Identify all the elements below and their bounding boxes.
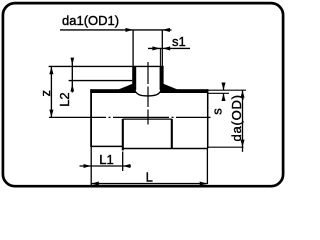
svg-text:L1: L1 xyxy=(99,152,113,167)
dim s line top xyxy=(223,83,225,91)
branch wall left xyxy=(132,66,136,90)
branch mouth line xyxy=(132,65,163,67)
svg-text:s: s xyxy=(210,108,225,115)
body top wall left of branch xyxy=(90,89,135,93)
body top wall right of branch xyxy=(160,89,208,93)
body bottom middle line xyxy=(123,148,208,150)
ext line branch socket depth xyxy=(69,80,133,82)
dim da1 arrow left xyxy=(126,28,134,32)
ext line branch inner-right xyxy=(159,48,161,66)
socket bottom arc xyxy=(134,89,161,96)
frame border xyxy=(3,3,283,186)
dim da1 arrow right xyxy=(162,28,170,32)
dim L2 arrow bottom (outside) xyxy=(70,84,74,92)
dim L1 line xyxy=(80,165,132,167)
dim L arrow right (inside) xyxy=(200,182,208,186)
dim L line xyxy=(91,183,207,185)
dim s arrow bottom (outside) xyxy=(221,93,225,101)
centerline branch axis xyxy=(147,62,149,125)
dim L arrow left (inside) xyxy=(91,182,99,186)
dim L2 line xyxy=(71,59,73,93)
branch wall right xyxy=(160,66,164,90)
ext line branch outer-left xyxy=(132,30,134,67)
dim z line xyxy=(50,66,52,117)
ext line s bottom xyxy=(208,92,229,94)
dim L2 arrow top (outside) xyxy=(70,58,74,66)
dim da line xyxy=(242,90,244,152)
socket shoulder right xyxy=(171,119,173,149)
centerline horizontal axis xyxy=(49,116,211,118)
svg-text:s1: s1 xyxy=(172,34,186,49)
body right end face xyxy=(207,89,209,148)
ext line L1 right xyxy=(122,152,124,172)
dim s arrow top (outside) xyxy=(221,83,225,91)
dim z arrow top xyxy=(49,67,53,75)
ext line L left xyxy=(90,147,92,185)
dim z arrow bottom xyxy=(49,110,53,118)
dim s1 line xyxy=(148,47,190,49)
dim s1 arrow right xyxy=(163,46,171,50)
dim L1 arrow right (outside) xyxy=(123,164,131,168)
dim da arrow bottom (inside) xyxy=(240,140,244,148)
dim da arrow top (inside) xyxy=(240,90,244,98)
dim da1 line xyxy=(60,29,172,31)
body bottom left line xyxy=(91,145,123,147)
svg-text:da1(OD1): da1(OD1) xyxy=(62,13,119,28)
fillet right xyxy=(163,84,177,91)
ext line branch mouth to z xyxy=(49,65,133,67)
ext line L right xyxy=(206,148,208,184)
ext line s top / da top xyxy=(208,89,246,91)
ext line branch outer-right xyxy=(161,30,163,67)
body left end face xyxy=(90,89,92,147)
dim s1 arrow left xyxy=(152,46,160,50)
socket shoulder left xyxy=(122,119,124,150)
dim s line bottom xyxy=(223,93,225,100)
fillet left xyxy=(119,84,133,91)
ext line da bottom xyxy=(208,146,244,148)
svg-text:da(OD): da(OD) xyxy=(229,95,244,142)
bore top line xyxy=(123,118,172,120)
dim L1 arrow left (outside) xyxy=(84,164,92,168)
svg-text:L2: L2 xyxy=(57,92,72,106)
svg-text:L: L xyxy=(146,169,153,184)
